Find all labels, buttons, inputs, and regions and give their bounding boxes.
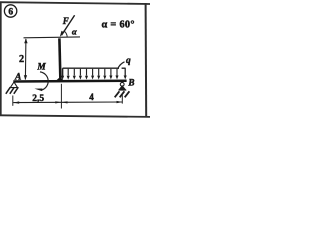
- beam A-B: [13, 80, 126, 83]
- dimension 2 down arrowhead: [24, 75, 27, 80]
- border frame right: [145, 3, 148, 117]
- problem number circle 6: [4, 5, 16, 17]
- force F arrowhead: [60, 31, 65, 37]
- force F line: [62, 15, 75, 35]
- distributed load arrow 5: [92, 69, 94, 76]
- distributed load top line left segment: [63, 67, 119, 69]
- dimension 2,5 right arrowhead: [55, 101, 61, 103]
- border frame top: [0, 2, 150, 4]
- distributed load arrow 7: [104, 69, 106, 76]
- border frame bottom: [0, 115, 150, 117]
- svg-text:q: q: [126, 56, 131, 66]
- svg-text:α = 60°: α = 60°: [102, 20, 135, 31]
- svg-text:A: A: [14, 73, 21, 83]
- border frame left: [0, 2, 2, 117]
- support B triangle: [119, 86, 125, 90]
- moment M arc: [40, 72, 48, 90]
- moment M arrowhead: [34, 89, 42, 92]
- svg-text:2,5: 2,5: [32, 94, 44, 104]
- distributed load arrow 1: [67, 69, 69, 76]
- support B ground line: [119, 89, 126, 91]
- svg-text:F: F: [62, 16, 69, 26]
- support B roller circle: [120, 82, 124, 86]
- dimension 2,5 left arrowhead: [13, 101, 19, 103]
- top reference line: [24, 36, 81, 39]
- svg-text:4: 4: [89, 92, 94, 102]
- column: [59, 38, 60, 80]
- dimension 2 up arrowhead: [24, 38, 27, 43]
- support A hatching: [6, 87, 18, 94]
- distributed load arrow 6: [98, 69, 100, 76]
- distributed load arrow 4: [86, 69, 88, 76]
- distributed load arrow 8: [110, 69, 112, 76]
- extension line below column: [60, 84, 62, 109]
- svg-text:2: 2: [19, 54, 24, 65]
- distributed load left edge arrow: [62, 68, 64, 76]
- dimension 4 right arrowhead: [117, 101, 123, 103]
- angle alpha arc: [64, 31, 68, 38]
- svg-text:α: α: [72, 26, 77, 36]
- support B hatching: [115, 91, 130, 97]
- dimension 2 line: [24, 39, 27, 80]
- distributed load arrow 3: [79, 69, 81, 76]
- dimension 2,5 line: [13, 101, 61, 103]
- load q leader line: [118, 62, 125, 69]
- extension line below B: [121, 95, 123, 104]
- distributed load arrow 9: [116, 69, 118, 76]
- distributed load top line right segment: [122, 67, 126, 69]
- dimension 4 left arrowhead: [62, 101, 68, 103]
- svg-text:6: 6: [8, 7, 13, 17]
- svg-text:M: M: [36, 62, 46, 72]
- svg-text:B: B: [127, 77, 134, 87]
- column foot gusset: [56, 78, 64, 81]
- distributed load right edge arrow: [124, 68, 126, 76]
- support A pin triangle: [10, 82, 17, 88]
- dimension 4 line: [61, 101, 122, 103]
- extension line below A: [12, 96, 14, 106]
- distributed load arrow 2: [73, 69, 75, 76]
